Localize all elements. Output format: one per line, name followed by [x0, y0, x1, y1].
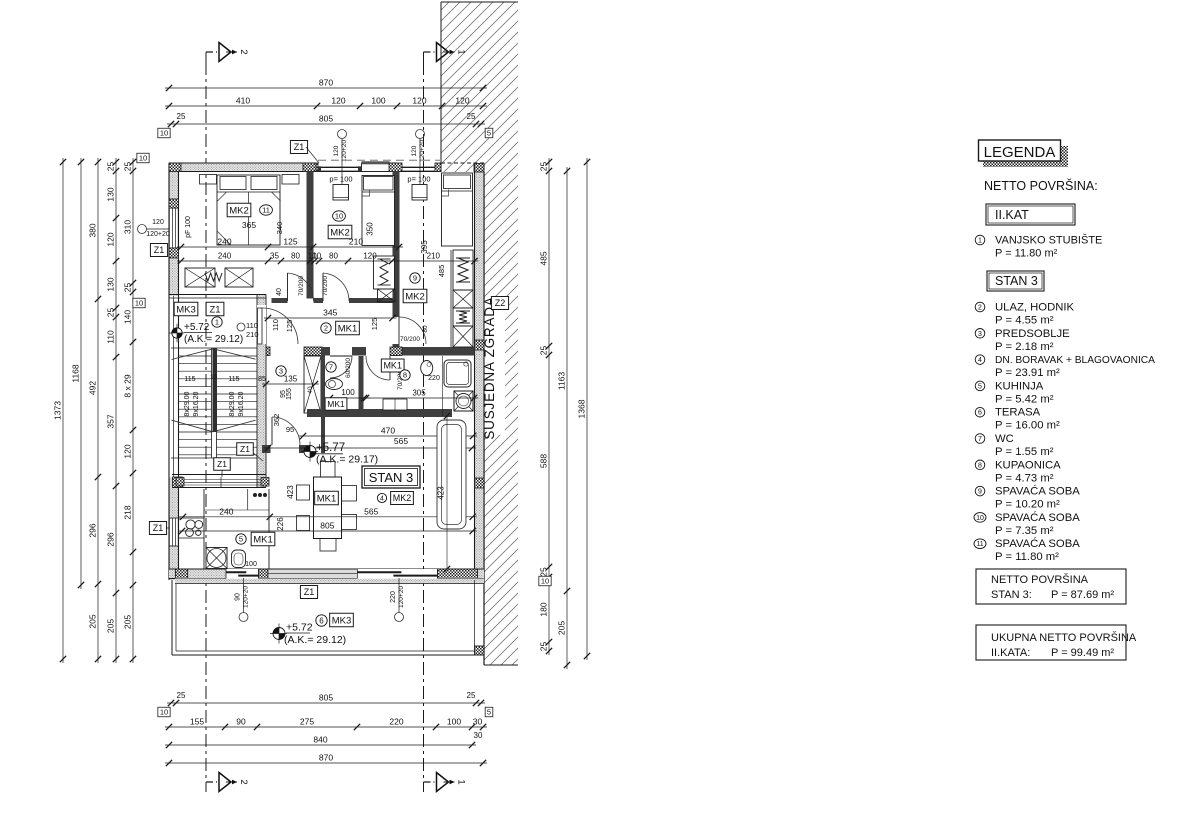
svg-text:II.KAT: II.KAT: [995, 208, 1029, 222]
svg-text:115: 115: [228, 376, 239, 383]
svg-text:MK3: MK3: [332, 615, 352, 626]
svg-text:8x29.00: 8x29.00: [229, 391, 236, 416]
svg-text:485: 485: [437, 265, 446, 278]
svg-text:5: 5: [239, 535, 243, 544]
svg-text:MK1: MK1: [327, 399, 345, 409]
svg-text:362: 362: [272, 414, 281, 427]
svg-text:25: 25: [539, 642, 549, 652]
svg-text:4: 4: [978, 357, 982, 364]
svg-text:340: 340: [275, 222, 284, 235]
svg-text:35: 35: [270, 252, 279, 261]
svg-text:305: 305: [412, 389, 426, 398]
svg-text:115: 115: [184, 376, 195, 383]
svg-text:PREDSOBLJE: PREDSOBLJE: [995, 328, 1070, 340]
svg-text:40: 40: [307, 386, 314, 394]
svg-text:MK1: MK1: [253, 534, 273, 545]
svg-text:365: 365: [242, 220, 256, 230]
svg-text:25: 25: [177, 112, 186, 121]
svg-text:3: 3: [279, 367, 283, 376]
svg-text:9x16.20: 9x16.20: [238, 391, 245, 416]
svg-text:8: 8: [403, 371, 407, 380]
svg-text:80: 80: [291, 252, 300, 261]
svg-text:30: 30: [474, 731, 483, 740]
svg-text:130: 130: [106, 277, 116, 291]
svg-text:296: 296: [88, 523, 98, 537]
svg-text:120+20: 120+20: [341, 140, 348, 162]
svg-text:120: 120: [123, 444, 133, 458]
svg-text:120: 120: [363, 252, 377, 261]
svg-text:MK2: MK2: [229, 205, 249, 216]
svg-text:210: 210: [246, 330, 259, 339]
svg-text:SPAVAĆA SOBA: SPAVAĆA SOBA: [995, 511, 1080, 524]
svg-text:Z1: Z1: [304, 587, 315, 597]
svg-text:296: 296: [106, 532, 116, 546]
svg-text:STAN 3: STAN 3: [369, 470, 414, 485]
svg-text:P = 11.80 m²: P = 11.80 m²: [995, 551, 1059, 563]
svg-text:10: 10: [160, 129, 168, 138]
svg-text:100: 100: [371, 96, 385, 106]
svg-text:120: 120: [152, 219, 164, 226]
svg-text:9: 9: [978, 489, 982, 496]
svg-text:10: 10: [976, 515, 984, 522]
svg-text:155: 155: [190, 717, 204, 727]
svg-text:9: 9: [413, 274, 417, 283]
svg-text:218: 218: [123, 505, 133, 519]
svg-text:MK1: MK1: [317, 493, 337, 504]
svg-text:470: 470: [381, 426, 395, 436]
svg-text:P = 1.55 m²: P = 1.55 m²: [995, 446, 1054, 458]
svg-text:205: 205: [123, 615, 133, 629]
svg-text:P = 23.91 m²: P = 23.91 m²: [995, 367, 1060, 379]
svg-text:110: 110: [106, 330, 116, 344]
svg-text:220: 220: [390, 591, 397, 603]
svg-text:130: 130: [106, 187, 116, 201]
svg-text:MK3: MK3: [176, 304, 196, 315]
svg-text:120: 120: [106, 232, 116, 246]
svg-text:25: 25: [177, 691, 186, 700]
svg-text:85: 85: [258, 376, 266, 383]
svg-text:(A.K.= 29.17): (A.K.= 29.17): [316, 454, 378, 466]
svg-text:P = 5.42 m²: P = 5.42 m²: [995, 393, 1054, 405]
svg-text:Z1: Z1: [209, 304, 220, 315]
svg-text:110: 110: [271, 319, 280, 331]
svg-text:120: 120: [412, 96, 426, 106]
svg-text:KUHINJA: KUHINJA: [995, 380, 1044, 392]
svg-text:125: 125: [370, 318, 379, 331]
svg-text:25: 25: [106, 308, 116, 318]
svg-text:7: 7: [329, 363, 333, 372]
svg-text:80: 80: [422, 325, 429, 333]
svg-text:805: 805: [320, 521, 334, 531]
svg-text:Z1: Z1: [154, 245, 165, 255]
svg-text:155: 155: [286, 388, 293, 400]
svg-text:226: 226: [276, 517, 285, 531]
svg-text:1373: 1373: [53, 401, 63, 420]
svg-text:4: 4: [380, 496, 384, 503]
svg-text:P = 10.20 m²: P = 10.20 m²: [995, 499, 1060, 511]
svg-text:SPAVAĆA SOBA: SPAVAĆA SOBA: [995, 537, 1080, 550]
svg-text:120: 120: [333, 145, 340, 156]
svg-text:240: 240: [218, 252, 232, 261]
svg-text:125: 125: [285, 320, 294, 333]
svg-text:492: 492: [88, 381, 98, 395]
svg-text:90: 90: [235, 593, 242, 601]
svg-text:25: 25: [539, 162, 549, 172]
svg-text:5: 5: [978, 383, 982, 390]
svg-text:120: 120: [411, 145, 418, 156]
svg-text:565: 565: [364, 506, 378, 516]
svg-text:2: 2: [978, 305, 982, 312]
svg-text:205: 205: [106, 619, 116, 633]
svg-text:100: 100: [245, 561, 257, 568]
svg-text:120: 120: [331, 96, 345, 106]
svg-text:+5.72: +5.72: [286, 622, 313, 634]
svg-text:220: 220: [428, 375, 440, 382]
svg-text:Z1: Z1: [240, 444, 250, 454]
svg-text:1: 1: [978, 238, 982, 245]
svg-text:NETTO POVRŠINA:: NETTO POVRŠINA:: [984, 178, 1098, 193]
svg-text:7: 7: [978, 436, 982, 443]
svg-text:1163: 1163: [557, 372, 567, 391]
svg-text:2: 2: [324, 324, 328, 333]
svg-text:6: 6: [978, 410, 982, 417]
svg-text:P = 11.80 m²: P = 11.80 m²: [995, 248, 1058, 260]
svg-text:MK2: MK2: [405, 291, 425, 302]
svg-text:70/200: 70/200: [322, 276, 329, 296]
svg-text:80: 80: [329, 252, 338, 261]
svg-text:ULAZ, HODNIK: ULAZ, HODNIK: [995, 302, 1075, 314]
svg-text:10: 10: [541, 577, 549, 586]
svg-text:90: 90: [236, 717, 246, 727]
svg-text:140: 140: [123, 310, 133, 324]
svg-text:Z2: Z2: [495, 298, 506, 308]
svg-text:565: 565: [394, 436, 408, 446]
svg-text:120+20: 120+20: [419, 140, 426, 162]
svg-text:125: 125: [283, 237, 297, 247]
svg-text:6: 6: [319, 616, 324, 625]
svg-text:310: 310: [123, 220, 133, 234]
svg-text:588: 588: [539, 454, 549, 468]
svg-text:275: 275: [300, 717, 314, 727]
svg-text:P = 7.35 m²: P = 7.35 m²: [995, 525, 1054, 537]
svg-text:25: 25: [467, 691, 476, 700]
svg-text:357: 357: [106, 414, 116, 428]
svg-text:11: 11: [976, 541, 983, 548]
svg-text:DN. BORAVAK + BLAGOVAONICA: DN. BORAVAK + BLAGOVAONICA: [995, 355, 1155, 366]
svg-text:II.KATA:: II.KATA:: [991, 647, 1030, 659]
svg-text:P = 2.18 m²: P = 2.18 m²: [995, 341, 1054, 353]
svg-text:2: 2: [238, 779, 249, 784]
svg-text:TERASA: TERASA: [995, 407, 1041, 419]
svg-text:11: 11: [262, 206, 270, 215]
svg-text:135: 135: [284, 375, 298, 384]
svg-text:3: 3: [978, 331, 982, 338]
svg-text:100: 100: [447, 717, 461, 727]
svg-text:120+20: 120+20: [146, 231, 170, 238]
svg-text:180: 180: [539, 602, 549, 616]
svg-text:95: 95: [280, 390, 287, 398]
svg-text:8x29.00: 8x29.00: [184, 391, 191, 416]
svg-text:220: 220: [389, 717, 403, 727]
svg-text:25: 25: [106, 162, 116, 172]
svg-text:2: 2: [238, 49, 249, 54]
svg-text:(A.K.= 29.12): (A.K.= 29.12): [284, 634, 346, 646]
svg-text:1: 1: [456, 779, 467, 784]
svg-text:120: 120: [455, 96, 469, 106]
svg-text:25: 25: [123, 283, 133, 293]
svg-text:P = 99.49 m²: P = 99.49 m²: [1051, 647, 1114, 659]
svg-text:MK1: MK1: [383, 361, 402, 371]
svg-text:350: 350: [366, 222, 375, 236]
svg-text:p= 100: p= 100: [407, 175, 430, 184]
svg-text:P = 87.69 m²: P = 87.69 m²: [1051, 589, 1114, 601]
svg-text:70/200: 70/200: [400, 336, 420, 343]
svg-text:Z1: Z1: [217, 459, 227, 469]
svg-text:(A.K.= 29.12): (A.K.= 29.12): [184, 334, 243, 345]
svg-text:30: 30: [473, 717, 483, 727]
svg-text:870: 870: [319, 753, 333, 763]
svg-text:205: 205: [557, 621, 567, 635]
svg-text:95: 95: [286, 425, 294, 434]
svg-text:25: 25: [539, 346, 549, 356]
svg-text:P = 4.55 m²: P = 4.55 m²: [995, 315, 1054, 327]
svg-text:70/200: 70/200: [298, 276, 305, 296]
svg-text:P = 4.73 m²: P = 4.73 m²: [995, 472, 1054, 484]
svg-text:9x16.20: 9x16.20: [193, 391, 200, 416]
svg-text:423: 423: [286, 485, 295, 499]
svg-text:240: 240: [217, 237, 231, 247]
svg-text:25: 25: [123, 162, 133, 172]
svg-text:STAN 3:: STAN 3:: [991, 589, 1032, 601]
svg-text:Z1: Z1: [153, 523, 164, 533]
svg-text:pF 100: pF 100: [185, 216, 192, 238]
svg-text:10: 10: [139, 154, 147, 163]
svg-text:5: 5: [487, 129, 491, 138]
svg-text:KUPAONICA: KUPAONICA: [995, 459, 1061, 471]
svg-text:LEGENDA: LEGENDA: [984, 144, 1056, 161]
svg-text:240: 240: [219, 506, 233, 516]
svg-text:MK2: MK2: [393, 493, 412, 503]
svg-text:840: 840: [313, 735, 327, 745]
svg-text:805: 805: [319, 114, 333, 124]
svg-text:1: 1: [456, 49, 467, 54]
svg-text:p= 100: p= 100: [329, 175, 352, 184]
svg-text:25: 25: [467, 112, 476, 121]
svg-text:10: 10: [210, 375, 217, 381]
svg-text:110: 110: [246, 321, 258, 330]
svg-text:60/200: 60/200: [345, 358, 352, 378]
svg-text:8 x 29: 8 x 29: [123, 374, 133, 397]
svg-text:Z1: Z1: [294, 142, 305, 152]
svg-text:10: 10: [135, 299, 143, 308]
svg-text:STAN 3: STAN 3: [995, 274, 1038, 288]
svg-text:MK2: MK2: [330, 227, 350, 238]
svg-text:40: 40: [276, 288, 283, 296]
svg-text:410: 410: [236, 96, 250, 106]
svg-text:1168: 1168: [71, 364, 81, 383]
svg-text:345: 345: [323, 308, 337, 318]
svg-text:MK1: MK1: [338, 323, 358, 334]
svg-text:10: 10: [335, 212, 343, 221]
svg-text:205: 205: [88, 614, 98, 628]
svg-text:P = 16.00 m²: P = 16.00 m²: [995, 420, 1060, 432]
svg-text:1: 1: [215, 318, 219, 327]
svg-text:423: 423: [437, 486, 446, 500]
svg-text:5: 5: [487, 708, 491, 717]
svg-text:NETTO POVRŠINA: NETTO POVRŠINA: [991, 573, 1089, 586]
svg-text:1368: 1368: [577, 399, 587, 418]
svg-text:395: 395: [420, 240, 429, 254]
svg-text:SPAVAĆA SOBA: SPAVAĆA SOBA: [995, 485, 1080, 498]
svg-text:25: 25: [539, 567, 549, 577]
svg-text:805: 805: [319, 693, 333, 703]
svg-text:UKUPNA NETTO POVRŠINA: UKUPNA NETTO POVRŠINA: [991, 631, 1137, 644]
svg-text:+5.72: +5.72: [184, 322, 210, 333]
svg-text:380: 380: [88, 223, 98, 237]
svg-text:10: 10: [312, 252, 321, 261]
svg-text:870: 870: [319, 78, 333, 88]
svg-text:WC: WC: [995, 433, 1014, 445]
svg-text:VANJSKO STUBIŠTE: VANJSKO STUBIŠTE: [995, 234, 1102, 247]
svg-text:+5.77: +5.77: [316, 442, 345, 454]
svg-text:100: 100: [341, 388, 355, 397]
svg-text:485: 485: [539, 251, 549, 265]
svg-text:8: 8: [978, 462, 982, 469]
svg-text:10: 10: [160, 708, 168, 717]
